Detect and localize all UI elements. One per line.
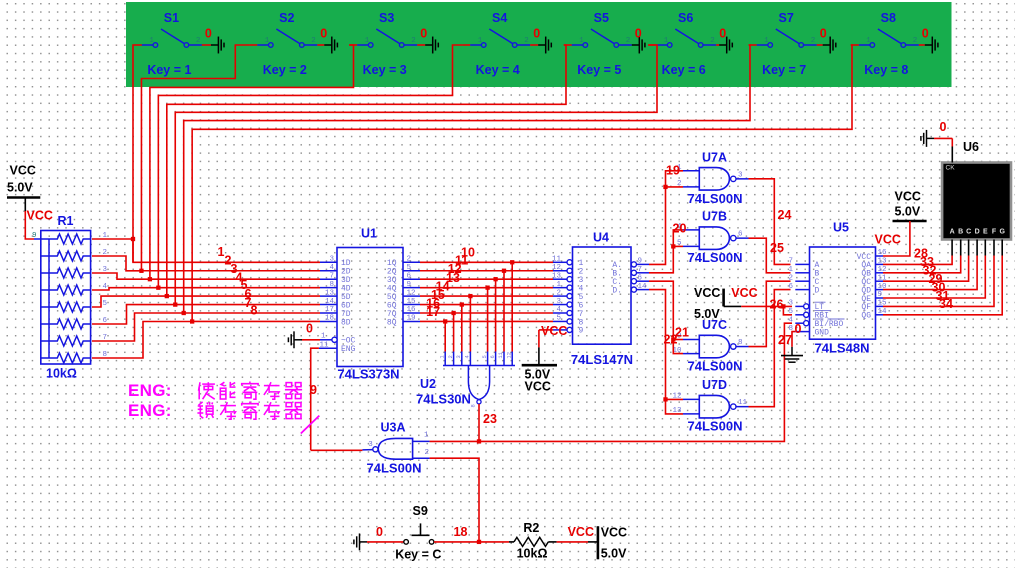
svg-text:2: 2: [788, 274, 793, 282]
U7A input pins: [683, 170, 699, 172]
svg-text:1: 1: [478, 37, 483, 45]
svg-text:2: 2: [196, 37, 201, 45]
svg-text:3: 3: [788, 300, 793, 308]
svg-text:1: 1: [866, 37, 871, 45]
resistor R1 element 2: [41, 251, 91, 261]
annotation char cun: [220, 402, 236, 419]
svg-text:U7B: U7B: [702, 210, 727, 224]
wire node 8 row to U1: [192, 320, 320, 322]
svg-text:0: 0: [533, 27, 540, 41]
svg-text:10kΩ: 10kΩ: [517, 547, 548, 561]
resistor R1 element 1: [41, 234, 91, 244]
svg-text:Key = 8: Key = 8: [864, 63, 908, 77]
U5 pin 3 (LT): [795, 305, 803, 307]
svg-text:2: 2: [425, 449, 430, 457]
U7D input pins: [683, 398, 699, 400]
svg-text:4: 4: [556, 306, 561, 314]
U5 pin 1 (B): [795, 272, 809, 274]
U4 pin 3 (input 6): [553, 304, 567, 306]
wire net 23 row: U3A pin1 to U5 BI: [430, 323, 792, 441]
resistor R1 element 7: [41, 336, 91, 346]
wire node 4 row to U1: [158, 287, 320, 289]
svg-text:VCC: VCC: [541, 324, 567, 338]
svg-text:3: 3: [368, 441, 373, 449]
svg-text:5: 5: [103, 300, 108, 308]
VCC bar symbol (left): [7, 196, 40, 199]
svg-text:23: 23: [483, 412, 497, 426]
svg-text:13: 13: [325, 289, 335, 297]
svg-text:8Q: 8Q: [387, 318, 397, 327]
wire net 24: U7A out to U5.A: [749, 179, 791, 265]
svg-text:26: 26: [770, 298, 784, 312]
U4 pin 9 (input 9) to VCC: [553, 329, 567, 331]
svg-text:ENG: ENG: [341, 345, 356, 354]
svg-text:1: 1: [265, 37, 270, 45]
svg-text:74LS30N: 74LS30N: [416, 392, 471, 407]
svg-text:5: 5: [788, 308, 793, 316]
svg-text:0: 0: [795, 322, 802, 336]
svg-text:2: 2: [447, 355, 454, 358]
U1 pin 17 (D7): [320, 312, 337, 314]
VCC bar symbol (below U4): [547, 329, 553, 331]
wire R1.7 to node 7: [92, 313, 184, 341]
svg-text:4: 4: [329, 264, 334, 272]
U4 pin 4 (input 7): [553, 312, 567, 314]
svg-text:8: 8: [738, 339, 743, 347]
svg-text:Key = 3: Key = 3: [363, 63, 407, 77]
svg-text:74LS00N: 74LS00N: [688, 250, 743, 265]
svg-text:20: 20: [673, 222, 687, 236]
wire net 28: U5 QA to U6 A: [883, 256, 952, 265]
switch S2 (Key = 2): [249, 11, 337, 77]
svg-text:Key = 6: Key = 6: [662, 63, 706, 77]
svg-text:1: 1: [764, 37, 769, 45]
svg-text:3: 3: [455, 355, 462, 358]
U1 pin 13 (D5): [320, 295, 337, 297]
svg-text:B: B: [958, 229, 963, 236]
svg-text:6: 6: [738, 231, 743, 239]
wire net 18 to U3A pin2: [430, 458, 479, 542]
svg-text:GND: GND: [815, 328, 830, 337]
wire S1 to node 1: [133, 45, 134, 262]
switch S1 (Key = 1): [134, 11, 224, 77]
svg-text:18: 18: [454, 525, 468, 539]
VCC bar symbol (right): [893, 220, 927, 223]
svg-text:VCC: VCC: [601, 526, 627, 540]
wire node 5 row to U1: [167, 295, 320, 297]
svg-text:5: 5: [407, 264, 412, 272]
wire net 26: VCC to U5 LT and RBI: [741, 305, 792, 307]
svg-text:13: 13: [552, 272, 562, 280]
svg-text:74LS00N: 74LS00N: [367, 460, 422, 475]
annotation char ji: [242, 402, 258, 420]
svg-text:S7: S7: [779, 11, 794, 25]
svg-text:8: 8: [251, 304, 258, 318]
svg-text:11: 11: [552, 256, 562, 264]
svg-text:S5: S5: [594, 11, 609, 25]
svg-text:U3A: U3A: [380, 421, 405, 435]
svg-text:A: A: [950, 229, 955, 236]
svg-text:3: 3: [329, 256, 334, 264]
resistor R1 element 5: [41, 302, 91, 312]
U7B output pin 6: [736, 237, 749, 239]
svg-text:0: 0: [306, 322, 313, 336]
wire net 33: U5 QB to U6 B: [883, 256, 961, 273]
annotation char shi: [199, 382, 215, 399]
U7C output pin 8: [736, 346, 749, 348]
switch S8 (Key = 8): [851, 11, 938, 77]
switch S7 (Key = 7): [749, 11, 836, 77]
wire U7C out to U5.C: [749, 281, 791, 346]
svg-text:74LS00N: 74LS00N: [688, 419, 743, 434]
svg-text:Key = 2: Key = 2: [263, 63, 307, 77]
svg-text:16: 16: [407, 306, 417, 314]
svg-text:5.0V: 5.0V: [694, 307, 720, 321]
wire R1.4 to node 4: [92, 288, 158, 290]
svg-text:U1: U1: [361, 227, 377, 241]
svg-text:S9: S9: [413, 504, 428, 518]
svg-text:D.: D.: [612, 286, 622, 295]
svg-text:25: 25: [770, 241, 784, 255]
svg-text:3: 3: [556, 298, 561, 306]
wire VCC to U5 pin 16: [883, 221, 910, 256]
wire U5 GND pin to ground: [792, 332, 795, 347]
svg-text:2: 2: [556, 289, 561, 297]
svg-text:S4: S4: [492, 11, 507, 25]
svg-text:ENG:: ENG:: [128, 401, 172, 420]
svg-text:U4: U4: [593, 231, 609, 245]
switch S4 (Key = 4): [462, 11, 551, 77]
annotation char suo: [197, 402, 213, 418]
svg-text:4: 4: [788, 316, 793, 324]
wire S8 to node 8: [192, 45, 852, 322]
svg-text:2: 2: [811, 37, 816, 45]
svg-text:1: 1: [556, 281, 561, 289]
wire S5 to node 5: [167, 45, 566, 296]
svg-text:9: 9: [407, 281, 412, 289]
svg-text:2: 2: [311, 37, 316, 45]
U5 pin 7 (A): [795, 263, 809, 265]
svg-text:12: 12: [505, 352, 512, 359]
svg-text:Key = 1: Key = 1: [147, 63, 191, 77]
U2 74LS30N 8-input NAND: [444, 352, 446, 366]
svg-text:1: 1: [579, 37, 584, 45]
svg-text:D: D: [815, 286, 820, 295]
wire net 32: U5 QC to U6 C: [883, 256, 969, 282]
wire U4.B to U7B inputs (net 20): [649, 230, 683, 273]
svg-text:12: 12: [552, 264, 561, 272]
U4 pin 1 (input 4): [553, 287, 567, 289]
wire net 31: U5 QF to U6 F: [883, 256, 994, 307]
svg-text:17: 17: [325, 306, 334, 314]
U5 pin 8 (GND): [795, 331, 809, 333]
U7A output pin 3: [736, 178, 749, 180]
svg-text:U2: U2: [420, 377, 436, 391]
svg-text:U6: U6: [963, 140, 979, 154]
annotation slash: [301, 416, 320, 434]
wire R1.6 to node 6: [92, 305, 175, 324]
U5 pin 6 (D): [795, 289, 809, 291]
svg-text:1: 1: [149, 37, 154, 45]
svg-text:74LS48N: 74LS48N: [815, 341, 870, 356]
U4 pin 13 (input 3): [553, 278, 567, 280]
wire U4.D to U7D inputs: [649, 290, 683, 414]
wire Q8 to U2 and U4: [420, 320, 553, 322]
svg-text:0: 0: [820, 27, 827, 41]
resistor R1 element 4: [41, 285, 91, 295]
svg-text:R2: R2: [523, 521, 539, 535]
wire R1.2 to node 2: [92, 256, 141, 271]
svg-text:7: 7: [329, 272, 334, 280]
wire net 23: U2 output down: [478, 404, 480, 442]
svg-text:S1: S1: [164, 11, 179, 25]
svg-text:34: 34: [939, 297, 953, 311]
svg-text:74LS00N: 74LS00N: [688, 359, 743, 374]
wire R1.1 to node 1: [92, 238, 133, 240]
svg-text:QG: QG: [861, 312, 871, 321]
svg-text:G: G: [999, 229, 1005, 236]
wire S4 to node 4: [158, 45, 462, 288]
U1 pin 14 (D6): [320, 304, 337, 306]
svg-text:F: F: [992, 229, 997, 236]
svg-text:5: 5: [556, 315, 561, 323]
wire Q3 to U2 and U4: [420, 278, 553, 280]
svg-text:Key = C: Key = C: [395, 548, 441, 562]
svg-text:14: 14: [325, 298, 335, 306]
svg-text:Key = 4: Key = 4: [476, 63, 520, 77]
svg-text:11: 11: [738, 399, 748, 407]
junction dots key bundle: [131, 237, 135, 241]
svg-text:7: 7: [638, 266, 643, 274]
annotation char ji: [242, 382, 258, 400]
svg-text:2: 2: [407, 256, 412, 264]
svg-text:1: 1: [218, 245, 225, 259]
svg-text:Key = 5: Key = 5: [577, 63, 621, 77]
U4 pin 12 (input 2): [553, 270, 567, 272]
resistor R1 element 3: [41, 268, 91, 278]
svg-text:0: 0: [205, 27, 212, 41]
U1 pin 4 (D2): [320, 270, 337, 272]
wire node 6 row to U1: [175, 304, 320, 306]
svg-text:74LS00N: 74LS00N: [688, 191, 743, 206]
annotation char cun: [264, 382, 280, 399]
svg-text:0: 0: [719, 27, 726, 41]
wire net 30: U5 QE to U6 E: [883, 256, 985, 299]
ground (below U5): [791, 347, 793, 356]
svg-text:D: D: [975, 229, 980, 236]
wire R1.5 to node 5: [92, 296, 167, 307]
wire R2 to VCC: [557, 541, 588, 543]
svg-text:2: 2: [913, 37, 918, 45]
wire net 27: U7D out to U5.D: [749, 290, 791, 407]
U1 pin 3 (D1): [320, 261, 337, 263]
svg-text:2: 2: [710, 37, 715, 45]
annotation char neng: [220, 382, 235, 399]
switch S5 (Key = 5): [564, 11, 645, 77]
wire node 2 row to U1: [141, 270, 320, 272]
U5 pin 5 (RBI): [795, 314, 803, 316]
svg-text:0: 0: [635, 27, 642, 41]
svg-text:VCC: VCC: [895, 190, 921, 204]
switch S6 (Key = 6): [648, 11, 732, 77]
svg-text:9: 9: [878, 291, 883, 299]
svg-text:E: E: [983, 229, 988, 236]
annotation char qi: [285, 383, 302, 399]
svg-text:1: 1: [664, 37, 669, 45]
svg-text:S8: S8: [881, 11, 896, 25]
wire U3A output to net 9: [362, 449, 372, 451]
wire R1.8 to node 8: [92, 322, 192, 359]
svg-text:8D: 8D: [341, 318, 351, 327]
svg-text:24: 24: [778, 208, 792, 222]
U4 pin 5 (input 8): [553, 320, 567, 322]
wire net 34: U5 QG to U6 G: [883, 256, 1002, 315]
resistor R1 element 6: [41, 319, 91, 329]
U1 pin 7 (D3): [320, 278, 337, 280]
svg-text:3: 3: [738, 171, 743, 179]
svg-text:12: 12: [407, 289, 416, 297]
svg-text:6: 6: [407, 272, 412, 280]
annotation char qi: [285, 403, 302, 419]
wire VCC to R1 pin 9: [25, 211, 34, 239]
ground (bottom left): [360, 541, 368, 543]
wire net 18: S9 to R2: [434, 541, 509, 543]
svg-text:2: 2: [411, 37, 416, 45]
svg-text:R1: R1: [58, 214, 74, 228]
resistor R1 element 8: [41, 353, 91, 363]
svg-text:19: 19: [666, 164, 680, 178]
U7C input pins: [683, 339, 699, 341]
U7D output pin 11: [736, 406, 749, 408]
svg-text:9: 9: [638, 258, 643, 266]
wire ground to S9: [367, 541, 404, 543]
svg-text:0: 0: [940, 120, 947, 134]
svg-text:VCC: VCC: [694, 286, 720, 300]
svg-text:74LS373N: 74LS373N: [337, 367, 399, 382]
wire Q5 to U2 and U4: [420, 295, 553, 297]
svg-text:C: C: [966, 229, 971, 236]
U5 pin 2 (C): [795, 280, 809, 282]
svg-text:U7D: U7D: [702, 378, 727, 392]
wire net 25: U7B out to U5.B: [749, 238, 791, 273]
svg-text:1: 1: [438, 355, 445, 358]
svg-text:VCC: VCC: [731, 286, 757, 300]
svg-text:0: 0: [376, 525, 383, 539]
wire Q7 to U2 and U4: [420, 312, 553, 314]
U4 pin 2 (input 5): [553, 295, 567, 297]
svg-text:74LS147N: 74LS147N: [571, 352, 633, 367]
wire node 1 row to U1: [133, 239, 320, 262]
svg-text:0: 0: [922, 27, 929, 41]
svg-text:U5: U5: [833, 221, 849, 235]
wire Q6 to U2 and U4: [420, 304, 553, 306]
U4 pin 11 (input 1): [553, 261, 567, 263]
svg-text:4: 4: [464, 355, 471, 358]
svg-text:6: 6: [638, 274, 643, 282]
svg-text:S3: S3: [379, 11, 394, 25]
svg-text:Key = 7: Key = 7: [762, 63, 806, 77]
svg-text:1: 1: [365, 37, 370, 45]
wire S3 to node 3: [150, 45, 354, 279]
svg-text:6: 6: [788, 283, 793, 291]
green highlight region around switches: [126, 2, 952, 87]
U1 pin 8 (D4): [320, 287, 337, 289]
VCC bar symbol (U7C): [722, 289, 725, 307]
svg-text:5.0V: 5.0V: [895, 205, 921, 219]
wire S6 to node 6: [175, 45, 657, 305]
svg-text:0: 0: [420, 27, 427, 41]
svg-text:1: 1: [424, 431, 429, 439]
U1 pin 18 (D8): [320, 320, 337, 322]
svg-text:15: 15: [407, 298, 417, 306]
wire R1.3 to node 3: [92, 273, 150, 279]
U7B input pins: [683, 229, 699, 231]
wire net 9: U1.11 to U3A output: [311, 348, 319, 450]
wire U4.A to U7A inputs (net 19): [649, 171, 683, 265]
svg-text:5.0V: 5.0V: [7, 181, 33, 195]
U5 pin 4 (BI/RBO): [795, 322, 803, 324]
wire Q2 to U2 and U4: [420, 270, 553, 272]
svg-text:1: 1: [788, 266, 793, 274]
wire U4.C to U7C inputs (nets 21/22): [649, 281, 683, 353]
wire Q1 to U2 and U4: [420, 261, 553, 263]
svg-text:27: 27: [778, 333, 792, 347]
svg-text:19: 19: [407, 315, 416, 323]
wire net 29: U5 QD to U6 D: [883, 256, 977, 290]
svg-text:VCC: VCC: [27, 209, 53, 223]
annotation char cun: [264, 402, 280, 419]
svg-text:9: 9: [579, 327, 584, 336]
svg-text:ENG:: ENG:: [128, 381, 172, 400]
svg-text:U7A: U7A: [702, 150, 727, 164]
svg-text:S6: S6: [678, 11, 693, 25]
VCC bar symbol (bottom right): [597, 526, 600, 559]
svg-text:VCC: VCC: [568, 525, 594, 539]
wire node 7 row to U1: [184, 312, 320, 314]
wire node 3 row to U1: [150, 278, 320, 280]
svg-text:2: 2: [626, 37, 631, 45]
wire S7 to node 7: [184, 45, 750, 313]
svg-text:VCC: VCC: [875, 233, 901, 247]
svg-text:5: 5: [481, 355, 488, 358]
svg-text:VCC: VCC: [525, 380, 551, 394]
svg-text:7: 7: [788, 258, 793, 266]
switch S3 (Key = 3): [349, 11, 438, 77]
svg-text:14: 14: [638, 283, 648, 291]
svg-text:11: 11: [497, 352, 504, 359]
svg-text:VCC: VCC: [10, 164, 36, 178]
svg-text:5.0V: 5.0V: [601, 547, 627, 561]
svg-text:0: 0: [320, 27, 327, 41]
svg-text:6: 6: [489, 355, 496, 358]
svg-text:18: 18: [325, 315, 335, 323]
svg-text:8: 8: [329, 281, 334, 289]
wire S2 to node 2: [141, 45, 249, 271]
svg-text:CK: CK: [946, 165, 956, 172]
svg-text:17: 17: [426, 305, 440, 319]
svg-text:S2: S2: [279, 11, 294, 25]
wire Q4 to U2 and U4: [420, 287, 553, 289]
svg-text:10kΩ: 10kΩ: [46, 367, 77, 381]
svg-text:2: 2: [524, 37, 529, 45]
svg-text:9: 9: [310, 383, 317, 397]
